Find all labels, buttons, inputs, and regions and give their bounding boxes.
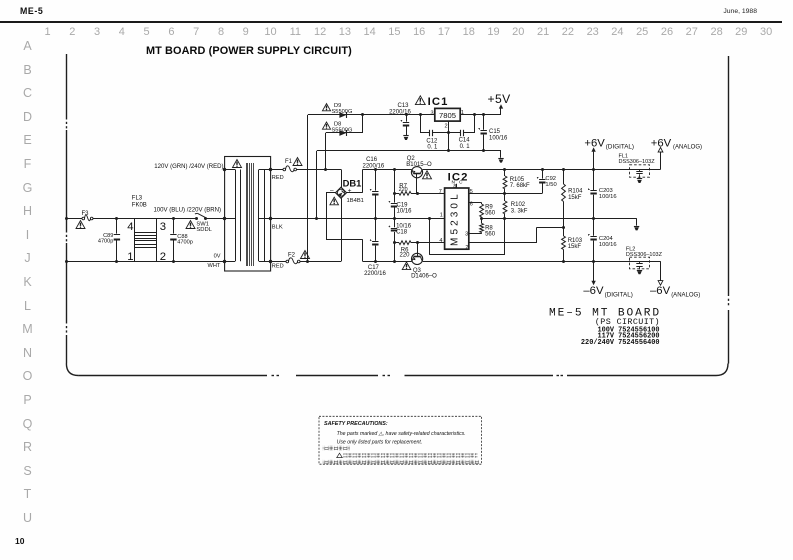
- capacitor C15 100/16: [483, 115, 485, 130]
- wire V+ rail to Q2: [363, 169, 412, 171]
- capacitor C19 10/16: [391, 203, 397, 205]
- node D9 feed on RED bottom: [306, 260, 309, 263]
- wire column to negative rail: [394, 243, 396, 262]
- wire F1 to DB1 top corner: [297, 169, 342, 171]
- node R7/Q2 base/IC2 pin7: [416, 192, 419, 195]
- svg-text:3: 3: [431, 110, 434, 116]
- svg-text:D1406–O: D1406–O: [411, 273, 437, 279]
- pin 8 stub N.C: [456, 184, 458, 188]
- wire DB1 bottom corner to RED bottom: [341, 198, 343, 261]
- svg-text:F3: F3: [82, 211, 90, 217]
- node D8/D9 cathodes join: [361, 113, 364, 116]
- node C15 top: [482, 113, 485, 116]
- svg-text:2: 2: [160, 251, 166, 263]
- wire IC2 pin 2 jog to R104/R103 midpoint: [469, 242, 537, 244]
- svg-text:Use only listed parts for repl: Use only listed parts for replacement.: [337, 440, 423, 446]
- svg-text:C15: C15: [489, 129, 501, 135]
- ground at C13: [403, 135, 408, 137]
- svg-text:BLK: BLK: [272, 224, 283, 230]
- svg-text:100/16: 100/16: [489, 135, 508, 141]
- svg-text:DSS306–103Z: DSS306–103Z: [619, 159, 656, 165]
- wire IC2 pin 6: [469, 202, 482, 204]
- svg-text:C14: C14: [459, 138, 471, 144]
- capacitor C16 2200/16: [375, 170, 377, 191]
- safety mark at F1: [293, 158, 302, 166]
- diode D9 S5500G: [308, 114, 435, 116]
- wire BLK centre tap to IC2 pin 1: [271, 218, 445, 220]
- node R105/R102 on pin5 line: [503, 192, 506, 195]
- svg-text:RED: RED: [272, 264, 284, 270]
- safety mark at Q3: [402, 262, 411, 270]
- svg-text:C12: C12: [426, 138, 438, 144]
- +5V supply arrow: [499, 104, 503, 108]
- +6V digital supply arrow: [593, 152, 595, 170]
- node ground riser on BLK: [315, 217, 318, 220]
- svg-text:SDDL: SDDL: [196, 227, 212, 233]
- svg-text:2: 2: [465, 245, 468, 251]
- safety mark at SW1: [186, 221, 195, 229]
- safety mark at F3: [76, 221, 85, 229]
- capacitor C13 2200/16: [406, 115, 408, 122]
- fuse F2: [286, 260, 289, 263]
- capacitor C92 1/50: [542, 170, 544, 179]
- svg-text:(DIGITAL): (DIGITAL): [606, 143, 634, 150]
- node C92 top: [541, 168, 544, 171]
- svg-text:2200/16: 2200/16: [364, 271, 386, 277]
- node R6/Q3 base/IC2 pin4: [416, 241, 419, 244]
- wire IC2 pin 4: [417, 242, 444, 244]
- node R103 bottom: [562, 260, 565, 263]
- switch SW1 SDDL (voltage selector): [195, 217, 198, 220]
- transformer T1 (power transformer): [225, 157, 271, 272]
- transformer terminals: [223, 168, 226, 171]
- node R104/R103 midpoint: [562, 226, 565, 229]
- wire F3 to line filter: [93, 218, 197, 220]
- svg-text:C: C: [459, 179, 463, 185]
- line filter FL3 FK0B left winding box with pins 4,1: [134, 218, 136, 261]
- wire IC2 pin 7: [417, 193, 444, 195]
- safety mark at Q2: [423, 171, 432, 179]
- svg-text:C18: C18: [396, 230, 408, 236]
- safety text JP line1 (simulated): [337, 453, 343, 457]
- svg-text:C16: C16: [366, 157, 378, 163]
- title: [146, 45, 352, 57]
- transistor Q3 D1406-O (NPN pass): [412, 253, 423, 264]
- svg-text:DSS306–103Z: DSS306–103Z: [626, 252, 663, 258]
- node AC bottom on border: [65, 260, 68, 263]
- wire negative rail to Q3: [363, 261, 412, 263]
- wire F2 to DB1 bottom corner: [300, 261, 341, 263]
- transformer primary winding lines: [235, 170, 237, 262]
- capacitor C17 2200/16: [375, 218, 377, 241]
- wire -6V rail from Q3: [423, 261, 661, 263]
- node R9/R8: [480, 217, 483, 220]
- svg-text:0. 1: 0. 1: [460, 144, 471, 150]
- svg-text:S5500G: S5500G: [332, 127, 353, 133]
- resistor R104 15kF: [563, 170, 565, 185]
- wire +5V ground rail: [317, 150, 501, 152]
- svg-text:5: 5: [470, 189, 473, 195]
- ground at FL1: [637, 178, 642, 180]
- svg-text:220/240V 7524556400: 220/240V 7524556400: [581, 339, 660, 347]
- -6V analog supply arrow: [660, 261, 662, 280]
- node C204 bottom: [592, 260, 595, 263]
- svg-text:+6V: +6V: [651, 138, 672, 150]
- wire secondary RED bottom to fuse F2: [271, 261, 286, 263]
- svg-text:8: 8: [453, 184, 456, 190]
- svg-text:3: 3: [160, 221, 166, 233]
- svg-text:R102: R102: [511, 202, 526, 208]
- wire R7/C19 column top: [394, 170, 396, 203]
- svg-text:R104: R104: [568, 189, 583, 195]
- resistor R8 560: [481, 218, 483, 223]
- svg-text:SAFETY PRECAUTIONS:: SAFETY PRECAUTIONS:: [324, 421, 388, 427]
- svg-text:+5V: +5V: [488, 92, 512, 106]
- safety mark inside transformer: [233, 160, 242, 168]
- svg-text:R103: R103: [568, 238, 583, 244]
- svg-text:IC1: IC1: [428, 96, 449, 108]
- node C13 tap: [405, 113, 408, 116]
- svg-text:C13: C13: [398, 103, 410, 109]
- capacitor C203 100/16: [593, 170, 595, 191]
- svg-text:15kF: 15kF: [568, 244, 582, 250]
- FL3 right winding box with pins 3,2: [156, 218, 158, 261]
- wire IC2 pin 3: [469, 233, 482, 235]
- svg-text:FK0B: FK0B: [132, 202, 147, 208]
- svg-text:1: 1: [127, 251, 133, 263]
- wire DB1 minus output Z-path to negative rail: [326, 192, 336, 194]
- resistor R9 560: [480, 204, 484, 217]
- svg-text:1B4B1: 1B4B1: [347, 198, 364, 204]
- wire ground riser BLK to +5V ground rail: [316, 151, 318, 218]
- node R7 left: [393, 192, 396, 195]
- node detour on BLK: [428, 217, 431, 220]
- capacitor C88 4700p (on right edge of FL3): [173, 218, 175, 233]
- svg-text:RED: RED: [272, 175, 284, 181]
- wire IC1 output: [460, 114, 501, 116]
- capacitor C18 10/16: [394, 218, 396, 227]
- svg-text:+6V: +6V: [584, 138, 605, 150]
- svg-text:100/16: 100/16: [599, 242, 617, 248]
- grid column numbers 1-30: [38, 26, 58, 38]
- svg-text:2200/16: 2200/16: [363, 163, 385, 169]
- svg-text:1: 1: [461, 110, 464, 116]
- svg-text:4700p: 4700p: [98, 239, 114, 245]
- svg-text:R9: R9: [485, 205, 493, 211]
- node R104 top: [562, 168, 565, 171]
- resistor R102 3.3kF: [504, 193, 506, 201]
- safety mark at F2: [301, 251, 310, 259]
- transformer tap stubs: [225, 169, 236, 171]
- node C88 bottom: [172, 260, 175, 263]
- wire DB1 plus output to V+ rail: [347, 192, 363, 194]
- svg-text:220: 220: [399, 187, 408, 193]
- bridge rectifier DB1 1B4B1: [336, 187, 347, 198]
- board outline (rounded border of MT board, with dash-dot breaks): [66, 54, 728, 376]
- wire +6V rail from Q2: [423, 169, 661, 171]
- FL3 coupled windings: [135, 232, 157, 234]
- node IC1 out / C14 riser: [473, 113, 476, 116]
- svg-text:3: 3: [465, 232, 468, 238]
- fuse F1: [283, 168, 286, 171]
- capacitor C14 0.1: [448, 132, 460, 134]
- node C89 bottom: [115, 260, 118, 263]
- resistor R6 220: [394, 242, 399, 244]
- svg-text:7: 7: [439, 189, 442, 195]
- resistor R103 15kF: [563, 227, 565, 236]
- safety text JP heading (simulated): [323, 446, 350, 450]
- wire secondary RED top to fuse F1: [271, 169, 283, 171]
- node R6 left: [393, 241, 396, 244]
- transformer secondary winding lines: [258, 170, 260, 262]
- op-amp U-IC2 M5230L dual regulator: [445, 188, 469, 249]
- resistor R7 220: [394, 193, 399, 195]
- svg-text:220: 220: [400, 253, 411, 259]
- safety mark at DB1: [330, 197, 339, 205]
- safety text JP line2 (simulated): [323, 460, 479, 464]
- svg-text:1: 1: [440, 212, 443, 218]
- svg-text:F2: F2: [288, 252, 296, 258]
- wire ground detour under IC2: [504, 218, 506, 254]
- svg-text:(DIGITAL): (DIGITAL): [605, 291, 633, 298]
- svg-text:10/16: 10/16: [397, 209, 413, 215]
- svg-text:4700p: 4700p: [177, 240, 193, 246]
- safety precautions box: [319, 416, 482, 464]
- svg-text:4: 4: [127, 221, 133, 233]
- svg-text:–6V: –6V: [650, 285, 671, 297]
- svg-text:100V (BLU) /220V (BRN): 100V (BLU) /220V (BRN): [153, 208, 221, 214]
- svg-text:0. 1: 0. 1: [427, 145, 438, 151]
- wire ground rail end drop: [500, 151, 502, 158]
- svg-text:100/16: 100/16: [599, 194, 617, 200]
- wire D9 anode feed (tall vertical): [307, 115, 309, 261]
- svg-text:WHT: WHT: [208, 263, 221, 269]
- wire ground line right of IC2: [482, 218, 637, 220]
- wire C14 right riser: [474, 115, 476, 133]
- header date: [723, 8, 757, 15]
- svg-text:M5230L: M5230L: [449, 191, 460, 246]
- svg-text:560: 560: [485, 211, 496, 217]
- node AC top on border: [65, 217, 68, 220]
- svg-text:–: –: [330, 187, 334, 194]
- svg-text:+: +: [348, 187, 352, 194]
- filter FL2 DSS306-103Z (feedthrough): [630, 257, 650, 269]
- node pin2/C12C14: [447, 131, 450, 134]
- node C88 top: [172, 217, 175, 220]
- -6V digital supply arrow: [593, 261, 595, 281]
- wire IC2 pin 5 line: [469, 193, 543, 195]
- safety mark at IC1: [415, 96, 425, 105]
- transistor Q2 B1015-O (PNP pass): [411, 167, 422, 178]
- svg-text:0V: 0V: [214, 254, 221, 260]
- svg-text:S5500G: S5500G: [332, 109, 353, 115]
- svg-text:The parts marked △, have safet: The parts marked △, have safety-related …: [337, 431, 466, 437]
- wire +5V stub: [475, 114, 501, 116]
- resistor R105 7.68kF: [504, 170, 506, 177]
- wire ground line end drop: [636, 218, 638, 225]
- svg-text:FL3: FL3: [132, 196, 143, 202]
- capacitor C89 4700p (on left edge of FL3): [116, 218, 118, 233]
- node R105 top on +6V rail: [503, 168, 506, 171]
- wire AC line bottom from board edge: [66, 261, 224, 263]
- header model name ME-5: [20, 6, 43, 16]
- transformer core lines: [246, 163, 248, 266]
- +6V analog supply arrow: [660, 152, 662, 170]
- wire D8 cathode up to D9 cathode: [362, 115, 364, 133]
- svg-text:–6V: –6V: [583, 285, 604, 297]
- node C15 bottom: [482, 149, 485, 152]
- svg-text:DB1: DB1: [343, 178, 362, 189]
- node pin2 on ground rail: [447, 149, 450, 152]
- svg-text:4: 4: [439, 238, 442, 244]
- node C89 top: [115, 217, 118, 220]
- svg-text:(ANALOG): (ANALOG): [673, 144, 702, 150]
- svg-text:2200/16: 2200/16: [389, 109, 411, 115]
- svg-text:7805: 7805: [439, 111, 456, 120]
- svg-text:120V (GRN) /240V (RED): 120V (GRN) /240V (RED): [154, 164, 223, 170]
- page number: [15, 536, 24, 546]
- node IC1 input: [419, 113, 422, 116]
- wire C12 left riser: [420, 115, 422, 133]
- ground at analog line: [634, 226, 639, 228]
- svg-text:(ANALOG): (ANALOG): [671, 292, 700, 298]
- ground at FL2: [637, 270, 642, 272]
- node C203 top (+6V digital tap): [592, 168, 595, 171]
- diode D8 S5500G: [326, 132, 363, 134]
- ground at +5V rail: [498, 158, 503, 160]
- svg-text:F1: F1: [285, 159, 293, 165]
- filter FL1 DSS306-103Z (feedthrough): [630, 165, 650, 177]
- node C203 bottom on ground line: [592, 217, 595, 220]
- svg-text:B1015–O: B1015–O: [406, 162, 432, 168]
- capacitor C12 0.1: [420, 132, 429, 134]
- grid row letters A-U: [20, 39, 35, 53]
- node R102 bottom / detour: [503, 217, 506, 220]
- capacitor C204 100/16: [593, 218, 595, 236]
- svg-text:560: 560: [485, 231, 496, 237]
- op-amp/regulator IC1 7805: [435, 108, 460, 121]
- svg-text:7. 68kF: 7. 68kF: [510, 183, 530, 189]
- fuse F3: [82, 217, 85, 220]
- wire D8 anode feed: [325, 133, 327, 170]
- svg-text:R105: R105: [510, 177, 525, 183]
- svg-text:15kF: 15kF: [568, 195, 582, 201]
- svg-text:1/50: 1/50: [545, 182, 556, 188]
- wire IC1 pin2 to ground rail: [448, 121, 450, 151]
- svg-text:3. 3kF: 3. 3kF: [511, 208, 528, 214]
- svg-text:C19: C19: [397, 203, 409, 209]
- node D8 feed on RED top: [324, 168, 327, 171]
- svg-text:2: 2: [445, 123, 448, 129]
- wire AC line top from board edge: [66, 218, 82, 220]
- header rule: [0, 21, 782, 23]
